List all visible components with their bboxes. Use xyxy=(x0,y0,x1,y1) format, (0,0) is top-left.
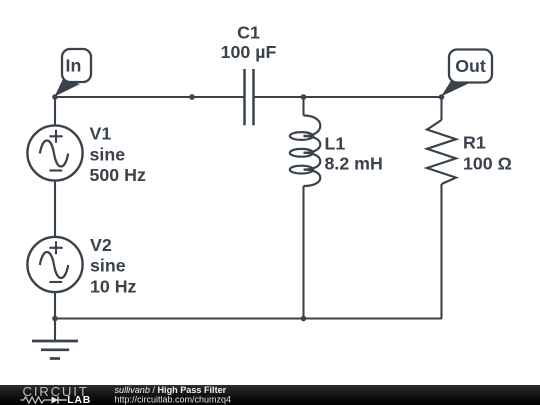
voltage source V1 xyxy=(27,125,82,180)
node junction dot: L1 top xyxy=(301,94,307,100)
svg-text:100 µF: 100 µF xyxy=(221,42,277,62)
wire: V1 bottom to V2 top xyxy=(54,181,56,238)
node label "Out" with pointer xyxy=(441,50,492,97)
wire: In node down to V1 top xyxy=(54,97,56,126)
wire: L1 top stub xyxy=(302,97,304,116)
svg-text:C1: C1 xyxy=(237,23,260,43)
label C1 designator and value xyxy=(221,23,277,63)
node junction dot: ground node xyxy=(52,316,58,322)
wire: bottom rail xyxy=(55,317,442,319)
wire: L1 bottom stub xyxy=(302,186,304,319)
inductor L1 xyxy=(290,116,321,187)
V1 sine wave xyxy=(40,141,68,167)
V1 minus sign xyxy=(49,169,62,171)
svg-text:Out: Out xyxy=(455,56,486,76)
node junction dot: Out node xyxy=(439,94,445,100)
V2 sine wave xyxy=(40,252,68,278)
svg-text:8.2 mH: 8.2 mH xyxy=(325,154,383,174)
node junction dot: In node xyxy=(52,94,58,100)
wire: R1 bottom to bottom rail xyxy=(440,184,442,319)
V1 plus sign xyxy=(49,130,62,143)
ground xyxy=(32,319,78,359)
capacitor C1 xyxy=(245,69,254,125)
wire: C1 right plate to Out node xyxy=(254,96,443,98)
CircuitLab logo xyxy=(21,384,91,405)
node junction dot: top wire mid xyxy=(189,94,195,100)
svg-text:L1: L1 xyxy=(325,134,346,154)
footer bar xyxy=(0,385,540,405)
V2 plus sign xyxy=(49,241,62,254)
resistor R1 xyxy=(427,120,456,184)
svg-text:100 Ω: 100 Ω xyxy=(463,154,512,174)
V2 minus sign xyxy=(49,281,62,283)
svg-text:V2: V2 xyxy=(90,235,112,255)
svg-text:http://circuitlab.com/chumzq4: http://circuitlab.com/chumzq4 xyxy=(115,394,232,404)
svg-text:500 Hz: 500 Hz xyxy=(90,165,146,185)
svg-text:sine: sine xyxy=(90,255,126,275)
label V1 designator and value xyxy=(90,124,146,185)
node junction dot: L1 bottom xyxy=(301,316,307,322)
label R1 designator and value xyxy=(463,133,512,174)
svg-text:In: In xyxy=(66,56,82,76)
svg-text:R1: R1 xyxy=(463,133,486,153)
label L1 designator and value xyxy=(325,134,383,174)
wire: Out node down to R1 top xyxy=(440,97,442,120)
svg-text:V1: V1 xyxy=(90,124,112,144)
svg-text:sine: sine xyxy=(90,144,126,164)
voltage source V2 xyxy=(27,237,82,292)
svg-text:10 Hz: 10 Hz xyxy=(90,277,137,297)
svg-text:sullivanb / High Pass Filter: sullivanb / High Pass Filter xyxy=(115,385,227,395)
wire: In node to C1 left plate xyxy=(55,96,245,98)
node label "In" with pointer xyxy=(55,49,92,97)
wire: V2 bottom to ground node xyxy=(54,292,56,319)
svg-text:LAB: LAB xyxy=(67,394,91,405)
label V2 designator and value xyxy=(90,235,137,297)
